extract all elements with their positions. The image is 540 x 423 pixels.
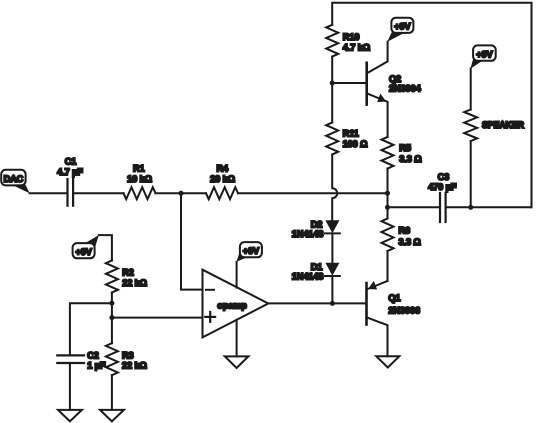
capacitor C3 [428, 172, 457, 222]
capacitor C2 [57, 351, 106, 371]
svg-text:22 kΩ: 22 kΩ [122, 278, 147, 288]
wire R10 to R11 [331, 57, 333, 123]
svg-text:+9V: +9V [476, 49, 493, 59]
wire op-amp V- pin to ground [236, 320, 238, 356]
svg-text:D2: D2 [311, 220, 323, 230]
svg-text:4.7 kΩ: 4.7 kΩ [343, 43, 370, 53]
svg-text:R11: R11 [343, 128, 359, 138]
wire C1 to R1 [73, 192, 123, 194]
wire R2/R3 node to op-amp non-inverting input [112, 317, 203, 319]
svg-text:Q1: Q1 [388, 293, 400, 303]
svg-text:2N3906: 2N3906 [388, 306, 420, 316]
svg-text:10 kΩ: 10 kΩ [127, 174, 152, 184]
ground (C2) [58, 410, 82, 422]
svg-text:C3: C3 [438, 172, 450, 182]
power +9V flag (bias) [73, 235, 99, 258]
svg-text:DAC: DAC [4, 174, 24, 184]
svg-text:1N4148: 1N4148 [292, 229, 324, 239]
node junction R2/C2 [109, 301, 114, 306]
wire bootstrap loop (R10 top, across top, down right side) [332, 3, 531, 208]
svg-text:470 µF: 470 µF [428, 182, 457, 192]
diode D1 [292, 262, 340, 281]
wire R1 to R4 [156, 192, 207, 194]
resistor R5 [382, 137, 422, 169]
svg-text:22 kΩ: 22 kΩ [122, 360, 147, 370]
node junction output/diode chain [330, 301, 335, 306]
resistor R2 [106, 261, 147, 293]
svg-text:SPEAKER: SPEAKER [482, 120, 525, 130]
ground (op-amp) [225, 356, 249, 368]
wire speaker bottom lead [470, 141, 472, 207]
svg-text:4.7 µF: 4.7 µF [57, 167, 83, 177]
wire +9V flag to R2 [99, 235, 112, 260]
wire R4 to output node (passes under hop) [238, 192, 388, 194]
node junction R10/R11/Q2 base [330, 81, 335, 86]
svg-text:3.3 Ω: 3.3 Ω [399, 154, 421, 164]
resistor R1 [124, 163, 156, 199]
svg-text:opamp: opamp [217, 300, 247, 310]
node junction to op-amp + [109, 315, 114, 320]
node junction signal/R5 [385, 191, 390, 196]
svg-text:+9V: +9V [75, 247, 92, 257]
power +9V flag (Q2) [387, 18, 413, 42]
svg-text:1 µF: 1 µF [87, 360, 106, 370]
wire Q2 base [332, 82, 367, 84]
wire feedback to op-amp inverting input [181, 193, 203, 289]
svg-text:+9V: +9V [243, 246, 260, 256]
wire node to node [387, 193, 389, 218]
svg-text:R5: R5 [399, 143, 411, 153]
wire DAC to C1 [30, 192, 68, 194]
power +9V flag (op-amp) [237, 242, 262, 262]
svg-text:R6: R6 [399, 226, 411, 236]
svg-text:3.3 Ω: 3.3 Ω [399, 237, 421, 247]
ground (R3) [100, 410, 124, 422]
transistor Q2 [367, 42, 422, 137]
svg-text:2N3904: 2N3904 [389, 83, 422, 93]
wire R3 to ground [111, 375, 113, 410]
node junction R1/R4/feedback [179, 191, 184, 196]
resistor R10 [326, 25, 370, 57]
wire R2 to R3 through junctions [111, 293, 113, 344]
ground (Q1) [376, 356, 399, 367]
svg-text:C1: C1 [65, 156, 77, 166]
wire R6 to Q1 emitter [387, 251, 389, 281]
svg-text:+9V: +9V [394, 22, 411, 32]
svg-text:R4: R4 [217, 163, 230, 173]
svg-text:R3: R3 [122, 351, 134, 361]
wire D1 to output line [331, 276, 333, 303]
wire C2 to ground [69, 363, 71, 410]
wire +9V to op-amp V+ pin [236, 262, 238, 288]
diode D2 [292, 220, 340, 240]
node junction speaker/output [468, 205, 473, 210]
svg-text:R10: R10 [343, 32, 360, 42]
wire junction to C2 [70, 303, 112, 355]
wire C3 to right edge [446, 206, 532, 208]
resistor R6 [382, 219, 421, 252]
resistor R3 [106, 343, 147, 375]
resistor R4 [206, 163, 238, 199]
wire D2 to D1 [331, 233, 333, 262]
wire R11 to D2 with hop over signal line [332, 155, 337, 221]
speaker SPK1 [464, 110, 524, 142]
wire speaker top to +9V [470, 69, 472, 110]
resistor R11 [326, 123, 367, 155]
svg-text:R2: R2 [122, 267, 134, 277]
power +9V flag (speaker) [470, 45, 495, 68]
svg-text:C2: C2 [87, 351, 99, 361]
svg-text:1N4148: 1N4148 [292, 271, 324, 281]
node junction output tap [385, 205, 390, 210]
svg-text:R1: R1 [133, 163, 145, 173]
svg-text:100 Ω: 100 Ω [343, 139, 368, 149]
capacitor C1 [57, 156, 83, 205]
node DAC [1, 170, 29, 194]
wire output tap to C3 [388, 206, 441, 208]
wire R5 to output node [387, 169, 389, 194]
transistor Q1 [367, 281, 420, 356]
wire op-amp output to Q1 base [268, 302, 366, 304]
svg-text:20 kΩ: 20 kΩ [210, 174, 235, 184]
op-amp U1 [203, 270, 269, 338]
